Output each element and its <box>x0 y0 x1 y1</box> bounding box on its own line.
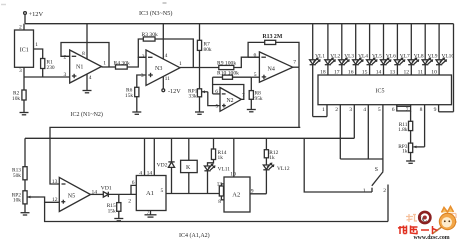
ground under RP2 <box>21 213 30 215</box>
ground under A1 <box>145 215 157 217</box>
wire N4 output down to node A <box>298 67 300 127</box>
svg-text:5: 5 <box>378 107 381 113</box>
LED VL9 <box>418 24 438 76</box>
svg-text:VL10: VL10 <box>442 54 455 60</box>
IC5 bargraph driver <box>318 75 452 105</box>
potentiometer RP2 10k <box>12 191 40 213</box>
svg-text:8: 8 <box>82 51 85 57</box>
svg-text:9: 9 <box>434 107 437 113</box>
IC1 regulator <box>15 24 39 74</box>
LED VL2 <box>320 24 340 76</box>
svg-text:N1: N1 <box>76 65 83 71</box>
wire IC5 pin5 down to switch pole <box>378 105 383 172</box>
wire node to N1 + input <box>24 76 70 78</box>
svg-text:+12V: +12V <box>29 11 44 18</box>
wire N1 feedback loop <box>61 43 109 68</box>
wire A2 pin10 to rail B <box>233 138 235 177</box>
resistor R4 30k <box>114 60 131 69</box>
wire N3 pin4 to rail <box>162 24 164 59</box>
wire IC5 pin3 to rail B <box>349 105 354 139</box>
svg-text:N2: N2 <box>227 98 234 104</box>
svg-text:3: 3 <box>349 107 352 113</box>
svg-text:5: 5 <box>161 188 164 194</box>
ground under R2 <box>20 113 29 115</box>
svg-text:10k: 10k <box>13 198 21 204</box>
svg-text:R10 100k: R10 100k <box>217 71 239 77</box>
svg-text:1k: 1k <box>218 155 224 161</box>
svg-text:1: 1 <box>35 42 38 48</box>
resistor R15 15k <box>107 194 121 218</box>
wire A1 pin14 to rail B <box>153 138 155 175</box>
wire R1 to node <box>42 69 44 78</box>
resistor R1 230 <box>41 59 55 71</box>
svg-text:1k: 1k <box>269 155 275 161</box>
wire A1 pin5 output line <box>166 193 219 195</box>
wire A1 pin7 ground <box>150 211 152 215</box>
svg-text:VL1: VL1 <box>315 54 325 60</box>
op-amp N5 <box>52 177 97 211</box>
resistor R3 30k feedback <box>138 32 193 68</box>
wire bottom return from contact2 <box>45 202 388 221</box>
wire RP2 wiper to N5 pin12 <box>40 197 60 202</box>
LED VL12 <box>263 163 290 194</box>
wire IC5 pin6 <box>392 105 397 113</box>
wire contact1 to rail B riser <box>304 138 372 192</box>
resistor R8 95k <box>249 77 263 109</box>
svg-text:2: 2 <box>335 107 338 113</box>
svg-text:IC2 (N1~N2): IC2 (N1~N2) <box>71 111 103 118</box>
wire N3 pin11 down <box>162 76 164 88</box>
wire IC1 pin3 down <box>23 67 25 77</box>
svg-text:R9 100k: R9 100k <box>217 61 236 67</box>
power terminal +12V <box>24 11 44 24</box>
wire A1 pin6 riser <box>131 185 136 194</box>
wire IC5 pin2 down <box>335 105 340 159</box>
op-amp N3 <box>141 50 182 85</box>
LED VL8 <box>404 24 424 76</box>
svg-text:VL3: VL3 <box>344 54 354 60</box>
svg-text:6: 6 <box>392 107 395 113</box>
svg-text:1.8k: 1.8k <box>398 127 408 133</box>
node top +12V rail <box>25 23 454 25</box>
node rail A comparator line <box>50 127 300 184</box>
svg-text:K: K <box>186 165 191 171</box>
svg-text:www.dzsc.com: www.dzsc.com <box>414 235 450 240</box>
svg-text:1: 1 <box>322 107 325 113</box>
svg-text:N3: N3 <box>155 66 162 72</box>
wire VD1 to A1 <box>108 193 136 195</box>
jumper between pin6 and pin7 <box>397 106 411 111</box>
potentiometer RP1 33k <box>188 68 208 113</box>
svg-text:1k: 1k <box>402 149 408 155</box>
svg-text:N5: N5 <box>68 193 75 199</box>
wire N1 pin8 to rail <box>86 24 88 59</box>
watermark logo dzsc <box>398 207 457 240</box>
svg-text:5: 5 <box>216 104 219 110</box>
LED VL1 <box>310 24 326 117</box>
op-amp N4 <box>254 52 297 82</box>
svg-text:2: 2 <box>128 198 131 204</box>
LED VL3 <box>334 24 354 76</box>
wire N1 output <box>102 66 116 68</box>
svg-text:6: 6 <box>132 180 135 186</box>
wire A1 pin4 to rail B <box>144 138 146 175</box>
svg-text:IC4 (A1,A2): IC4 (A1,A2) <box>179 232 210 239</box>
svg-text:4: 4 <box>139 171 142 177</box>
svg-text:15k: 15k <box>125 93 133 99</box>
resistor R13 50k <box>12 138 27 191</box>
wire R4 to N3 pin2 <box>127 57 146 67</box>
svg-text:4: 4 <box>89 75 92 81</box>
svg-text:VL2: VL2 <box>330 54 340 60</box>
wire IC5 pin1 to VL1 cathode <box>313 105 327 117</box>
svg-text:VL4: VL4 <box>358 54 368 60</box>
LED VL4 <box>348 24 368 76</box>
resistor R9 100k <box>217 61 236 70</box>
wire N2 pin6 <box>213 93 220 95</box>
wire A2 pin9 output <box>250 193 266 195</box>
wire N1 pin4 down <box>86 74 88 91</box>
svg-text:95k: 95k <box>255 96 263 102</box>
wire N4 pin5 <box>251 76 259 78</box>
svg-text:13: 13 <box>52 179 58 185</box>
wire IC5 pin9 to right rail <box>434 105 454 113</box>
svg-text:N4: N4 <box>268 67 275 73</box>
artifact dash top <box>163 2 167 4</box>
timer A2 <box>217 172 254 213</box>
wire N4 pin6 stub <box>248 56 259 58</box>
LED VL10 <box>431 24 454 76</box>
svg-text:80k: 80k <box>204 47 212 53</box>
svg-text:R3 30k: R3 30k <box>142 32 159 38</box>
diode VD1 <box>101 186 112 198</box>
timer A1 <box>128 171 166 216</box>
svg-text:230: 230 <box>47 65 55 71</box>
svg-text:2: 2 <box>64 55 67 61</box>
wire IC5 pin4 down <box>363 105 368 159</box>
ground under R6 <box>132 112 141 114</box>
svg-text:-12V: -12V <box>168 88 181 95</box>
svg-text:10k: 10k <box>12 96 20 102</box>
relay K <box>181 138 198 193</box>
resistor R13 2M feedback of N4 <box>248 34 299 67</box>
svg-text:15k: 15k <box>108 209 116 215</box>
svg-text:33k: 33k <box>189 93 197 99</box>
wire R9 to N4 pin6 <box>234 57 260 67</box>
svg-text:VL6: VL6 <box>386 54 396 60</box>
power terminal -12V <box>162 88 181 95</box>
svg-text:7: 7 <box>293 60 296 66</box>
ground under N1 <box>83 91 92 93</box>
ground under R15 <box>114 219 123 221</box>
wire IC1 pin1 <box>34 49 43 59</box>
svg-text:VL9: VL9 <box>428 54 438 60</box>
wire pin2/pin4 bottom link <box>340 158 383 160</box>
wire N3 output <box>180 67 219 69</box>
svg-text:VL7: VL7 <box>400 54 410 60</box>
wire right rail <box>453 24 455 112</box>
resistor R6 15k at N3 + input <box>125 75 146 112</box>
svg-text:VL5: VL5 <box>372 54 382 60</box>
svg-text:R13 2M: R13 2M <box>263 34 283 40</box>
svg-text:IC5: IC5 <box>376 88 385 94</box>
svg-text:8: 8 <box>420 107 423 113</box>
resistor R2 10k <box>12 77 26 113</box>
capacitor network beside A2 pins13-8 <box>219 184 224 200</box>
svg-text:VD1: VD1 <box>101 186 112 192</box>
svg-text:VL12: VL12 <box>277 166 290 172</box>
resistor R10 100k <box>213 71 252 85</box>
diode VD2 <box>157 138 175 193</box>
svg-text:14: 14 <box>147 171 153 177</box>
wire IC5 pin8 to RP3 wiper <box>420 105 425 147</box>
ground under RP3 <box>406 161 415 163</box>
switch S <box>363 167 388 222</box>
node rail B from R13 to IC5 pin3 <box>25 137 354 139</box>
svg-text:VL11: VL11 <box>218 167 231 173</box>
svg-text:11: 11 <box>165 76 171 82</box>
resistor R14 1k <box>208 138 227 166</box>
svg-text:2: 2 <box>383 188 386 194</box>
LED VL7 <box>390 24 410 76</box>
wire <box>24 14 26 23</box>
ground under R8 <box>247 110 256 112</box>
wire IC5 pin7 <box>406 105 411 122</box>
wire N4 output <box>293 66 299 68</box>
resistor R11 1.8k <box>398 121 413 143</box>
op-amp N2 <box>215 88 245 112</box>
wire N2 feedback <box>213 85 244 100</box>
svg-text:1: 1 <box>363 188 366 194</box>
svg-text:3: 3 <box>64 72 67 78</box>
svg-text:3: 3 <box>141 73 144 79</box>
svg-text:4: 4 <box>363 107 366 113</box>
svg-text:1: 1 <box>179 61 182 67</box>
svg-text:3: 3 <box>19 68 22 74</box>
resistor R7 80k <box>197 24 211 68</box>
LED VL11 <box>204 164 230 193</box>
svg-text:R4 30k: R4 30k <box>114 60 131 66</box>
artifact dash corner <box>1 4 6 6</box>
svg-text:IC1: IC1 <box>20 47 29 53</box>
wire N5 output <box>91 193 104 195</box>
svg-text:A1: A1 <box>146 190 154 197</box>
svg-text:IC3 (N3~N5): IC3 (N3~N5) <box>139 10 172 17</box>
svg-text:A2: A2 <box>232 192 240 199</box>
op-amp N1 <box>64 50 107 83</box>
svg-text:7: 7 <box>406 107 409 113</box>
resistor R12 1k <box>264 138 278 165</box>
svg-text:4: 4 <box>165 53 168 59</box>
wire RP1 wiper to N2 pin5 <box>208 92 220 106</box>
svg-text:50k: 50k <box>13 173 21 179</box>
LED VL6 <box>376 24 396 76</box>
LED VL5 <box>362 24 382 76</box>
svg-text:VL8: VL8 <box>414 54 424 60</box>
svg-text:VD2: VD2 <box>157 163 168 169</box>
potentiometer RP3 1k <box>398 143 424 161</box>
svg-text:1: 1 <box>103 61 106 67</box>
svg-text:S: S <box>375 167 378 173</box>
ground under RP1 <box>195 112 204 114</box>
